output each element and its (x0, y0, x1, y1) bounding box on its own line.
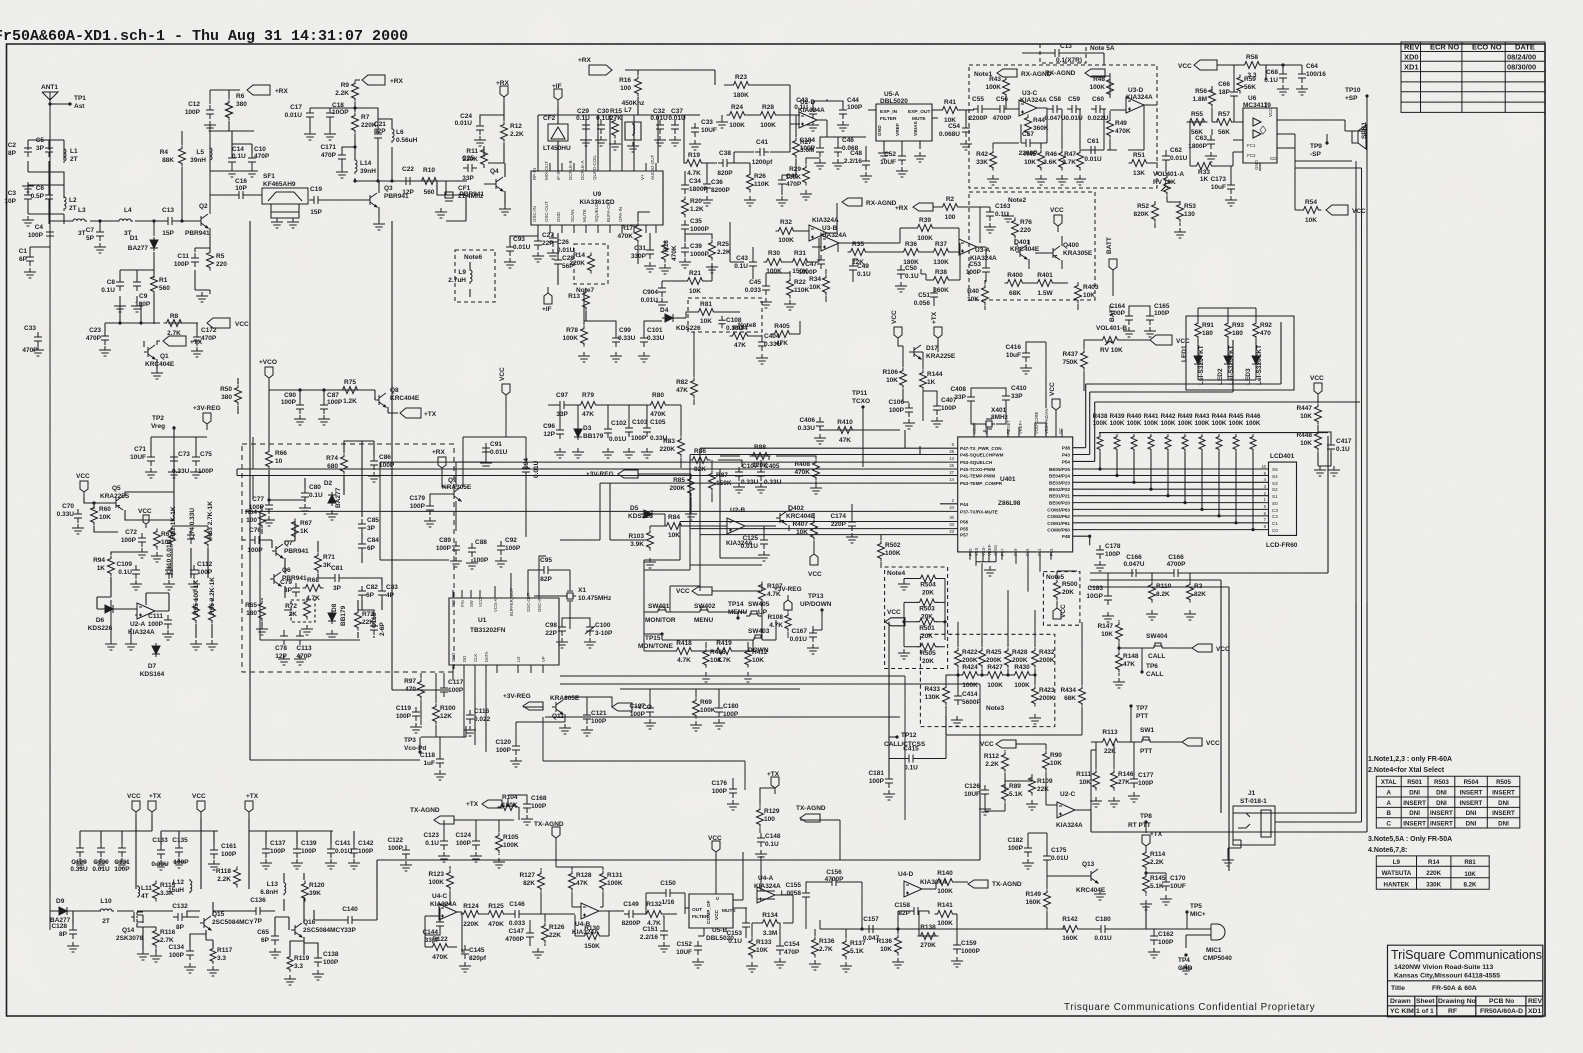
resistor R43 (985, 76, 1009, 98)
resistor R7 (352, 113, 377, 134)
power flag VCC ptt (980, 740, 1016, 748)
capacitor C50 (897, 265, 919, 280)
resistor R104 (498, 794, 519, 811)
resistor R432 (1032, 648, 1055, 669)
power flag RX-AGND b (1045, 69, 1105, 77)
resistor R62 (169, 506, 178, 547)
coil L7 450Khz (625, 122, 641, 140)
wire LCD buses (1073, 469, 1269, 545)
capacitor C163 (986, 203, 1011, 221)
power flag VCC sw1 (1182, 738, 1220, 747)
transistor Q8 (375, 393, 386, 407)
resistor R79 (578, 392, 599, 418)
capacitor C21 (374, 121, 386, 143)
resistor R502 (878, 541, 901, 562)
capacitor C22 (401, 166, 415, 196)
power flag +TX (163, 336, 203, 346)
op-amp U2-D (799, 112, 817, 128)
diode D3 (574, 426, 582, 440)
capacitor C35 (681, 218, 709, 234)
resistor R44 (1025, 115, 1049, 136)
resistor R500 (1054, 580, 1078, 601)
wire P44 lines drop (644, 448, 762, 634)
capacitor C117 (440, 679, 464, 697)
capacitor C96 (543, 423, 564, 439)
capacitor C30 (596, 108, 610, 134)
resistor R31 (790, 250, 811, 275)
switch SW402 MENU (696, 607, 712, 612)
capacitor C47 (798, 255, 825, 276)
wire note3 nets (946, 563, 1082, 735)
capacitor C13b (1050, 43, 1082, 64)
resistor R136a (812, 937, 835, 958)
capacitor C51 (914, 288, 938, 307)
capacitor C107 (735, 463, 759, 486)
wire C3/C6/L2 ladder (28, 185, 64, 224)
capacitor C165 (1146, 303, 1170, 325)
LED LED2 (1224, 353, 1232, 367)
wire SF1 grounds (271, 204, 299, 218)
resistor R126 (542, 923, 565, 944)
VCO dashed box (242, 444, 454, 672)
wire speaker nets (1275, 96, 1367, 832)
op-amp U2-A (137, 603, 155, 619)
capacitor C123 (423, 832, 448, 850)
capacitor C64 (1298, 63, 1326, 83)
power flag +3V-REG mid (586, 470, 638, 478)
resistor R137 (843, 939, 866, 960)
inductor L13 (260, 881, 286, 896)
capacitor C89 (436, 537, 460, 555)
capacitor C155 (781, 882, 810, 902)
capacitor C141 (327, 840, 353, 858)
wire squelch lines left (253, 437, 600, 640)
capacitor C31 (631, 245, 654, 260)
capacitor C184 (799, 137, 824, 157)
capacitor C162 (1150, 931, 1174, 946)
microphone MIC1 (1205, 924, 1225, 940)
power flag VCC r447 (1310, 375, 1324, 400)
resistor R58 (1242, 54, 1263, 79)
power flag VCC u5b (708, 835, 722, 858)
capacitor C115 trim (370, 612, 386, 636)
op-amp U3-C (1019, 100, 1037, 116)
capacitor C82 (358, 584, 378, 600)
wire U401 left pin wires (237, 430, 958, 558)
capacitor C118 (420, 752, 444, 768)
capacitor C180a (715, 703, 739, 718)
wire bottom rail continues (800, 820, 840, 929)
transistor Q1 (144, 345, 155, 359)
capacitor C5 (36, 137, 53, 157)
resistor R15 (610, 108, 622, 139)
resistor R120 (302, 881, 325, 902)
resistor R46 (1043, 150, 1065, 171)
resistor R36 (901, 241, 922, 266)
power flag +VCO (259, 359, 277, 384)
capacitor C7 (86, 227, 104, 242)
capacitor C14 (228, 146, 246, 167)
capacitor C116 (466, 708, 491, 724)
U401 right pin labels (1047, 446, 1070, 540)
power flag +3V-REG sw (774, 586, 802, 610)
resistor R401 (1035, 272, 1056, 297)
dashed box Note7 with R14 (574, 244, 608, 284)
power flag TX-AGND b (534, 821, 564, 844)
wire data bus verticals to U1 (453, 673, 486, 752)
wire bias rail (105, 302, 198, 347)
wire R23 net (625, 70, 800, 195)
transistor Q16 (291, 923, 302, 937)
capacitor C177 (1130, 772, 1154, 788)
wire note2 net (812, 207, 990, 310)
diode D6 (102, 605, 116, 613)
inductor L2 (64, 195, 77, 212)
capacitor C86 (370, 454, 395, 470)
capacitor C83 (378, 584, 398, 600)
resistor R437 (1062, 350, 1087, 371)
wire Q3 collector (355, 179, 446, 193)
filter SF1 (262, 188, 308, 204)
resistor R56 (1193, 87, 1216, 108)
inductor L1 (64, 147, 78, 163)
capacitor C180b (1094, 916, 1112, 942)
resistor R59 top-right corner (1237, 75, 1256, 94)
wire U9 top rail (538, 115, 700, 163)
capacitor C11 (174, 253, 199, 268)
wire TX chain (50, 860, 391, 955)
resistor R74 (326, 454, 347, 475)
wire u4c net (425, 866, 545, 952)
capacitor C28 (554, 255, 574, 270)
wire Q2 collector up (210, 131, 254, 214)
capacitor C173 (1210, 176, 1235, 194)
resistor R119 (287, 954, 310, 972)
resistor R67 (292, 519, 313, 540)
capacitor C16 (210, 194, 262, 196)
capacitor C49 (849, 261, 871, 278)
resistor R33 (1194, 163, 1215, 184)
title block (1388, 945, 1543, 1017)
capacitor C72 (121, 529, 146, 547)
resistor R419 (714, 640, 735, 664)
capacitor C66 (1218, 81, 1238, 101)
LED block box (1186, 316, 1294, 390)
capacitor C79 (280, 579, 300, 597)
capacitor C73 (170, 451, 190, 475)
capacitor C91 (482, 441, 508, 457)
resistor R8 (164, 313, 185, 337)
diode D5 (641, 510, 655, 518)
diode D2 varactor (328, 492, 336, 506)
transistor Q13 (1087, 869, 1098, 883)
capacitor C25 (462, 155, 477, 182)
power flag +3V-REG q11 (503, 693, 543, 710)
capacitor C2 (8, 142, 32, 157)
resistor R400 (1005, 272, 1026, 297)
capacitor C36b (703, 179, 730, 194)
resistor R424 (960, 664, 981, 689)
node TP1 (50, 103, 70, 105)
inductor L10 (98, 898, 114, 925)
capacitor C134 (168, 944, 194, 960)
capacitor C148 (757, 833, 781, 848)
capacitor C33b (691, 119, 717, 137)
capacitor C10 (248, 146, 270, 167)
U1 pin stubs (453, 573, 543, 673)
capacitor C34 (681, 178, 708, 194)
resistor R95 (193, 580, 201, 624)
resistor R112 (984, 752, 1009, 773)
switch SW1 PTT (1138, 737, 1154, 742)
resistor R97 (404, 678, 424, 700)
capacitor C37 (668, 108, 686, 134)
wire P38/P43/P54 to top nets (1073, 322, 1360, 461)
resistor R19 (684, 152, 705, 177)
transistor Q14 FET (131, 912, 143, 923)
capacitor C17 (285, 104, 314, 122)
capacitor C95 (539, 557, 553, 583)
diode D7 (152, 643, 160, 657)
resistor R85 (669, 476, 694, 497)
op-amp U2-C (1057, 802, 1075, 818)
notes text (1368, 756, 1452, 854)
resistor R27 (793, 138, 815, 159)
resistor R24 (727, 104, 748, 129)
capacitor C29 (576, 108, 590, 134)
capacitor C40 (778, 173, 802, 189)
capacitor C13 (162, 207, 177, 237)
capacitor C170 (1162, 875, 1186, 891)
wire bottom audio rail (840, 905, 1154, 929)
flag BATT2 (1109, 305, 1116, 322)
L9 vendor table (1376, 856, 1489, 889)
capacitor C33 (left edge) (22, 325, 42, 354)
power flag +RX (247, 85, 288, 95)
capacitor C63 (1188, 135, 1215, 150)
resistor R54 (1301, 199, 1322, 224)
resistor R136b (876, 935, 901, 956)
capacitor C156 (825, 869, 844, 886)
node R50 tail (220, 385, 241, 406)
power flag +TX u4 (466, 800, 502, 808)
capacitor C53 (966, 261, 990, 277)
capacitor C46 (834, 137, 859, 157)
op-amp U3-B (821, 235, 839, 251)
capacitor C106 (888, 399, 913, 417)
capacitor C182 (1007, 837, 1032, 857)
resistor R96 (209, 577, 217, 624)
resistor R71 (315, 553, 336, 574)
resistor R149 (1025, 890, 1050, 911)
resistor R425 (979, 648, 1002, 669)
switch SW405 UP (746, 611, 762, 616)
power flag +TX d17 (931, 311, 942, 344)
capacitor C168a (523, 795, 547, 813)
wire D1/R1 to gnd ladder (120, 252, 154, 324)
wire bank droppers to buses (1100, 433, 1253, 530)
resistor R29 (785, 165, 809, 186)
resistor R63 (205, 501, 215, 548)
resistor R447 (1296, 404, 1321, 425)
dashed box Note1 (969, 65, 1157, 188)
resistor R69 (693, 698, 716, 719)
capacitor C77 (249, 496, 273, 514)
capacitor C78 (275, 631, 288, 660)
speaker SPK1 (1352, 122, 1368, 149)
capacitor C176 (711, 780, 737, 798)
resistor R11 (462, 147, 487, 168)
capacitor C168b (1167, 554, 1186, 577)
capacitor C92 (497, 537, 521, 555)
diode D9 (56, 907, 70, 915)
resistor R35 (848, 241, 869, 266)
power flag TX-AGND c (796, 805, 826, 822)
switch SW403 DOWN (750, 635, 766, 640)
capacitor C26 (549, 233, 575, 254)
power flag +TX tx2 (245, 793, 259, 818)
capacitor C98 (545, 622, 566, 637)
resistor R422 (955, 648, 978, 669)
capacitor C12 (185, 101, 214, 119)
op-amp U4-C (439, 904, 457, 920)
resistor R4 (160, 146, 186, 167)
resistor R2 (940, 196, 961, 221)
wire expander net (974, 73, 1157, 150)
capacitor C146 (509, 901, 526, 927)
resistor R91 (1195, 321, 1214, 340)
capacitor C130 (92, 843, 110, 873)
crystal X401 (983, 419, 995, 429)
resistor R132 (644, 901, 665, 927)
capacitor C158 (894, 902, 923, 917)
resistor R501 (917, 618, 938, 640)
resistor R87 (709, 471, 732, 492)
capacitor C100 trim (585, 622, 613, 637)
resistor R147 (1097, 622, 1122, 643)
dashed box Note5A (1040, 44, 1086, 63)
resistor R5 (207, 250, 228, 271)
capacitor C127 (629, 703, 654, 718)
transistor Q402 (776, 511, 787, 525)
capacitor C70 (57, 503, 82, 523)
resistor R501b (761, 614, 763, 616)
resistor R66 (266, 449, 288, 470)
power flag VCC r54 (1326, 205, 1366, 215)
resistor R410 (835, 419, 856, 444)
resistor R145 (1143, 874, 1166, 895)
capacitor C58 (1045, 96, 1066, 122)
capacitor C71 (130, 446, 155, 466)
power flag VCC r407 (808, 548, 822, 578)
resistor R64 (245, 508, 265, 529)
resistor R141 (935, 902, 956, 927)
resistor R128 (569, 871, 592, 892)
capacitor C6 (31, 185, 53, 204)
capacitor C76 (247, 527, 264, 554)
capacitor C99 (612, 327, 636, 347)
capacitor C404 (758, 333, 782, 351)
capacitor C161 (210, 843, 237, 859)
capacitor C138 (314, 951, 339, 967)
wire VCO top rail (269, 384, 375, 452)
IC U1 TB31202FN (449, 598, 559, 665)
transistor D17 (910, 345, 921, 359)
power flag +RX d (895, 203, 933, 212)
op-amp U3-D (1126, 97, 1144, 113)
capacitor C56 (993, 96, 1012, 122)
resistor R115 (153, 881, 176, 902)
capacitor C133 (151, 837, 169, 868)
capacitor C126 (964, 783, 989, 799)
resistor R407 (792, 520, 817, 541)
resistor R57 (1214, 111, 1235, 136)
inductor L12 (168, 879, 192, 894)
capacitor C144 (422, 917, 444, 944)
capacitor C407 (933, 397, 957, 415)
U401 bottom pin labels (968, 543, 1054, 556)
resistor R106 (882, 368, 906, 389)
capacitor C139 (293, 840, 317, 858)
power flag VCC q9 (499, 367, 510, 401)
resistor R92 (1253, 321, 1272, 340)
transistor Q15 (200, 916, 211, 930)
resistor R144 (920, 370, 943, 391)
resistor R53 (1177, 202, 1197, 223)
capacitor C43 (734, 255, 757, 271)
capacitor C19 (309, 186, 323, 216)
capacitor C151 (640, 926, 668, 941)
transistor Q401 (1016, 245, 1027, 259)
transistor Q5 (112, 496, 123, 510)
capacitor C124 (455, 832, 480, 850)
IC U6 MC34119 (1243, 108, 1277, 163)
wire U401 top pins (974, 423, 1062, 437)
resistor R61 (154, 529, 174, 550)
wire u4b net (541, 844, 685, 936)
capacitor C84 (358, 537, 379, 553)
capacitor C45 (745, 279, 770, 295)
power flag VCC sw404 (1192, 644, 1230, 653)
resistor R48 (1089, 76, 1113, 98)
capacitor C59 (1065, 96, 1083, 122)
resistor R448 (1296, 431, 1321, 452)
resistor R32 (776, 219, 797, 244)
bank resistors (1097, 434, 1256, 452)
capacitor C60 (1088, 96, 1109, 122)
wire ptt net (985, 744, 1091, 814)
power flag +RX right (362, 75, 403, 85)
resistor R90 (1043, 751, 1063, 772)
resistor R83 (659, 437, 684, 458)
capacitor C121 (583, 710, 607, 725)
capacitor C8 (101, 277, 124, 294)
capacitor C153 (726, 918, 750, 945)
capacitor C408 (950, 386, 975, 406)
capacitor C48 (844, 150, 870, 170)
wire long rails right (1090, 436, 1367, 871)
resistor R140 (935, 870, 956, 895)
power flag TX-AGND d (968, 880, 1022, 888)
capacitor C65 (257, 929, 279, 945)
capacitor C405 (757, 463, 782, 486)
capacitor C74 (187, 508, 196, 544)
transistor Q6 (270, 572, 281, 586)
dashed box Note3 (920, 634, 1054, 726)
power flag RX-AGND c (842, 198, 897, 207)
U401 top pin labels (972, 408, 1063, 434)
capacitor C81 (330, 565, 344, 592)
